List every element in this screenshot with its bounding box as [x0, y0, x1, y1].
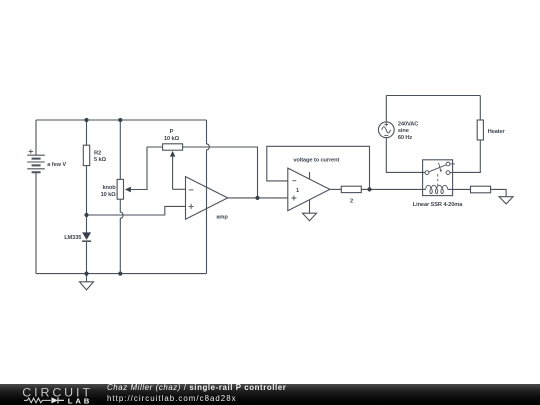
potentiometer knob 10 kOhm — [101, 179, 131, 199]
wire LM335 to bottom rail — [86, 241, 88, 273]
diode LM335 — [64, 232, 91, 241]
ground op-amp1 — [303, 213, 317, 221]
svg-text:Heater: Heater — [488, 129, 506, 135]
wire heater bottom — [453, 140, 481, 172]
wire sense: node to amp + input — [87, 206, 186, 215]
wire knob column bottom with hop — [120, 199, 123, 273]
wire battery bottom — [35, 172, 37, 273]
wire op-amp1 output — [330, 188, 342, 190]
op-amp1 V+ pin stub — [309, 172, 311, 179]
ground right — [499, 197, 513, 204]
wire supply column with hop — [207, 120, 210, 274]
ground left — [80, 274, 94, 290]
op-amp 1 (voltage to current) — [288, 158, 340, 211]
svg-text:10 kΩ: 10 kΩ — [101, 192, 117, 198]
svg-text:10 kΩ: 10 kΩ — [164, 136, 180, 142]
svg-text:5 kΩ: 5 kΩ — [94, 157, 107, 163]
resistor (unnamed, right) — [471, 186, 491, 193]
wire amp output — [228, 197, 288, 199]
svg-text:LAB: LAB — [68, 396, 92, 405]
node dots — [84, 118, 88, 122]
wire battery top — [35, 120, 37, 155]
wire knob column top — [119, 120, 121, 179]
CircuitLab logo — [0, 384, 100, 405]
svg-text:R2: R2 — [94, 150, 101, 156]
footer bar — [0, 384, 540, 405]
resistor Heater — [477, 120, 505, 140]
resistor 2 — [341, 186, 361, 204]
svg-text:sine: sine — [398, 128, 409, 134]
wire P right to amp output (feedback) — [183, 147, 258, 198]
wire heater top — [479, 96, 481, 121]
wire resistor 2 to SSR coil — [361, 188, 425, 190]
battery V1 (a few V) — [27, 149, 66, 172]
svg-text:LM335: LM335 — [64, 235, 81, 241]
wire op-amp1 feedback loop — [267, 146, 370, 189]
wire AC top rail — [386, 95, 480, 97]
AC source 240VAC sine 60 Hz — [378, 96, 418, 141]
op-amp amp — [186, 177, 229, 221]
svg-text:P: P — [170, 129, 174, 135]
wire top rail — [36, 119, 207, 121]
wire to right ground — [491, 189, 507, 196]
wire R2 to node — [86, 166, 88, 233]
svg-text:a few V: a few V — [47, 162, 66, 168]
relay Linear SSR 4-20ma — [413, 160, 463, 208]
wire bottom rail — [36, 273, 207, 275]
resistor R2 5 kOhm — [83, 145, 106, 165]
potentiometer P 10 kOhm — [163, 129, 183, 189]
svg-text:2: 2 — [350, 199, 353, 205]
svg-text:1: 1 — [296, 188, 299, 194]
svg-text:Linear SSR 4-20ma: Linear SSR 4-20ma — [413, 202, 463, 208]
wire knob wiper to P left — [131, 147, 163, 190]
wire AC bottom to SSR — [386, 138, 425, 173]
svg-text:60 Hz: 60 Hz — [398, 135, 413, 141]
svg-text:voltage to current: voltage to current — [293, 158, 339, 164]
svg-text:amp: amp — [216, 215, 228, 221]
op-amp1 V- pin — [309, 200, 311, 214]
svg-text:knob: knob — [102, 185, 116, 191]
wire R2 column top — [86, 120, 88, 145]
wire SSR coil out — [448, 188, 471, 190]
wire P wiper to amp - input — [173, 188, 186, 190]
svg-text:240VAC: 240VAC — [398, 122, 418, 128]
